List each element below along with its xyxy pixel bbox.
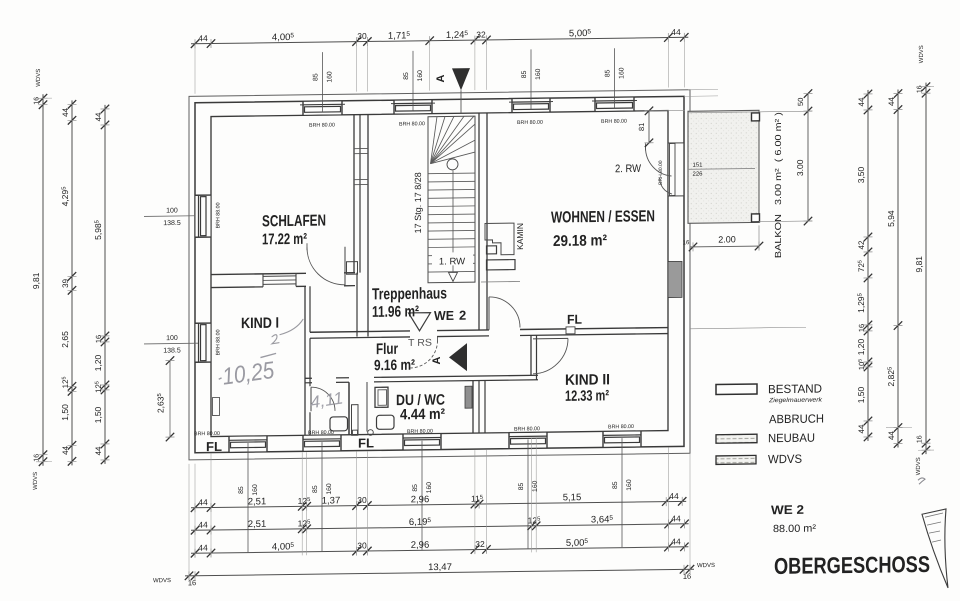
svg-text:85: 85: [312, 485, 319, 493]
svg-text:2,96: 2,96: [411, 494, 429, 505]
svg-text:1. RW: 1. RW: [439, 256, 465, 267]
svg-text:160: 160: [532, 480, 539, 492]
svg-text:FL: FL: [567, 312, 582, 327]
window left W10 (Schlafen): [195, 195, 211, 237]
svg-text:138.5: 138.5: [163, 220, 181, 227]
svg-text:39: 39: [61, 278, 70, 288]
svg-text:BRH 80.00: BRH 80.00: [399, 121, 425, 127]
svg-text:85: 85: [412, 484, 419, 492]
wall: Treppenhaus / Wohnen-Essen: [479, 113, 487, 330]
entry symbol WE 2 triangle: [409, 313, 431, 331]
svg-text:44: 44: [61, 107, 70, 117]
svg-text:WDVS: WDVS: [919, 45, 925, 63]
svg-text:16: 16: [94, 335, 103, 343]
svg-text:85: 85: [238, 486, 245, 494]
svg-text:16: 16: [857, 324, 866, 332]
svg-text:160: 160: [619, 67, 626, 79]
left dim 2.63: [156, 356, 175, 441]
svg-text:160: 160: [252, 484, 259, 496]
left dimension chain C: [93, 105, 109, 465]
short line below Kamin area: [481, 280, 520, 283]
svg-text:A: A: [431, 356, 443, 364]
right dimension chain D3: [886, 89, 902, 448]
svg-text:16: 16: [683, 240, 690, 246]
window bottom W8 (Kind II): [509, 432, 547, 448]
svg-text:44: 44: [671, 513, 681, 523]
svg-text:85: 85: [403, 72, 410, 80]
door DU/WC leaf + hinge: [352, 382, 374, 436]
svg-text:SCHLAFEN: SCHLAFEN: [262, 213, 326, 231]
svg-text:BRH 80.00: BRH 80.00: [514, 426, 540, 432]
svg-text:226: 226: [693, 172, 704, 178]
svg-text:100: 100: [166, 207, 178, 214]
svg-text:BRH 80.00: BRH 80.00: [194, 431, 220, 437]
bottom window extension lines + 85/160 labels: [238, 438, 633, 552]
svg-text:44: 44: [94, 112, 103, 122]
svg-text:30: 30: [357, 495, 367, 505]
Kamin chimney block: [485, 223, 515, 270]
svg-text:44: 44: [887, 431, 896, 441]
svg-text:30: 30: [357, 540, 367, 550]
balcony slab with posts: [688, 110, 760, 223]
svg-text:30: 30: [357, 31, 367, 41]
svg-text:2,51: 2,51: [248, 519, 266, 530]
bottom dimension chain 1: [191, 491, 687, 512]
right extension stubs: [684, 87, 934, 454]
svg-text:BRH 80.00: BRH 80.00: [407, 429, 433, 435]
svg-text:BALKON 3.00 m² ( 6.00 m² ): BALKON 3.00 m² ( 6.00 m² ): [773, 112, 783, 258]
svg-text:1,37: 1,37: [322, 495, 340, 506]
window bottom W5 (Kind I): [229, 436, 267, 452]
svg-text:FL: FL: [358, 435, 374, 450]
wall: DU/WC left + right, Kind II left lower: [349, 380, 485, 434]
room label SCHLAFEN: [262, 213, 326, 249]
svg-text:3.00: 3.00: [795, 159, 805, 176]
room label Treppenhaus: [372, 285, 466, 324]
door Wohnen/Essen: [489, 296, 520, 329]
window top W2 (Treppenhaus): [391, 100, 435, 115]
svg-text:Ziegelmauerwerk: Ziegelmauerwerk: [768, 397, 823, 405]
svg-text:BRH 80.00: BRH 80.00: [309, 122, 335, 128]
svg-text:138.5: 138.5: [163, 347, 181, 354]
svg-text:44: 44: [61, 445, 70, 455]
svg-text:44: 44: [198, 543, 208, 553]
left dimension chain B: [60, 100, 76, 466]
svg-text:160: 160: [417, 70, 424, 82]
balcony vertical dimension 50 / 3.00: [688, 89, 813, 227]
svg-text:NEUBAU: NEUBAU: [768, 431, 815, 446]
svg-text:100: 100: [166, 335, 178, 342]
svg-text:WDVS: WDVS: [33, 472, 39, 490]
svg-text:16: 16: [34, 97, 41, 105]
svg-text:11.96 m²: 11.96 m²: [372, 303, 419, 321]
svg-text:44: 44: [857, 97, 866, 107]
svg-text:BESTAND: BESTAND: [768, 382, 822, 397]
door T RS: [411, 337, 438, 368]
section mark A top: [435, 68, 470, 113]
svg-text:WDVS: WDVS: [697, 563, 715, 569]
top dimension chain: [191, 27, 689, 94]
svg-text:85: 85: [521, 70, 528, 78]
building exterior walls: [189, 90, 690, 460]
svg-text:160: 160: [327, 71, 334, 83]
svg-text:FL: FL: [206, 439, 222, 454]
svg-text:85: 85: [518, 482, 525, 490]
svg-text:88.00 m²: 88.00 m²: [773, 523, 817, 536]
svg-text:44: 44: [887, 97, 896, 107]
top window extension lines + 85/160 labels: [313, 48, 626, 112]
WC in pocket: [330, 417, 348, 431]
svg-text:2,51: 2,51: [248, 496, 266, 507]
bottom dimension chain 2: [191, 513, 689, 535]
neubau hatched wall segment near DU/WC: [465, 386, 472, 408]
svg-text:42: 42: [857, 240, 866, 250]
window bottom W9 (Kind II): [603, 431, 641, 447]
door Flur to Kind I pocket: [311, 387, 335, 411]
svg-text:WDVS: WDVS: [153, 578, 171, 584]
legend BESTAND: [716, 382, 823, 405]
svg-text:9,81: 9,81: [914, 256, 924, 273]
svg-text:3,50: 3,50: [856, 166, 866, 183]
svg-text:A: A: [435, 74, 447, 82]
section mark A in Flur: [431, 343, 467, 371]
door Schlafen: [307, 243, 358, 287]
left extension stubs: [36, 98, 52, 462]
svg-text:16: 16: [917, 435, 924, 443]
svg-text:1,50: 1,50: [60, 404, 70, 421]
corridor bottom wall: Flur / DU-WC: [305, 375, 538, 383]
svg-text:160: 160: [326, 483, 333, 495]
svg-text:1,20: 1,20: [856, 338, 866, 355]
svg-text:BRH 80.00: BRH 80.00: [608, 424, 634, 430]
window bottom W6 (Kind I): [303, 435, 341, 451]
svg-text:12.33 m²: 12.33 m²: [565, 387, 609, 405]
room label DU/WC: [396, 391, 445, 423]
svg-text:160: 160: [626, 479, 633, 491]
window left W11 (Kind I): [195, 323, 211, 362]
svg-text:Treppenhaus: Treppenhaus: [372, 285, 447, 303]
svg-text:44: 44: [198, 520, 208, 530]
svg-text:1,20: 1,20: [93, 354, 103, 371]
svg-text:32: 32: [476, 29, 486, 39]
svg-text:BRH 88.00: BRH 88.00: [216, 329, 222, 355]
svg-text:44: 44: [198, 33, 208, 43]
svg-text:1,50: 1,50: [856, 386, 866, 403]
svg-text:WDVS: WDVS: [36, 69, 42, 87]
legend WDVS: [716, 452, 802, 467]
svg-text:BRH 80.00: BRH 80.00: [308, 430, 334, 436]
svg-text:44: 44: [671, 27, 681, 37]
svg-text:29.18 m²: 29.18 m²: [553, 232, 607, 250]
right dimension chain D2: [856, 90, 872, 442]
svg-text:16: 16: [34, 454, 41, 462]
wall: Kind I right (vertical): [305, 286, 310, 435]
radiator Kind I left wall: [213, 397, 220, 415]
bottom dimension chain 4 overall: [153, 558, 715, 587]
handwritten 2 with arrow: [272, 319, 303, 343]
svg-text:85: 85: [605, 69, 612, 77]
svg-text:BRH 88.00: BRH 88.00: [216, 202, 222, 228]
door Kind II: [533, 338, 568, 373]
svg-text:ABBRUCH: ABBRUCH: [769, 412, 824, 427]
svg-text:13,47: 13,47: [428, 562, 452, 573]
svg-text:16: 16: [917, 85, 924, 93]
svg-text:17 Stg. 17 8/28: 17 Stg. 17 8/28: [413, 172, 423, 233]
svg-text:2: 2: [459, 308, 466, 323]
room label KIND II: [565, 371, 610, 405]
svg-text:Flur: Flur: [376, 341, 398, 358]
svg-text:44: 44: [198, 497, 208, 507]
svg-text:WOHNEN / ESSEN: WOHNEN / ESSEN: [551, 208, 655, 226]
svg-text:85: 85: [313, 73, 320, 81]
FL labels: [206, 312, 582, 454]
svg-text:WE: WE: [434, 308, 454, 323]
stairs: [428, 116, 475, 283]
svg-text:44: 44: [671, 536, 681, 546]
legend NEUBAU: [716, 431, 815, 446]
svg-text:81: 81: [637, 123, 646, 131]
bottom extension lines: [189, 435, 690, 580]
room label KIND I: [241, 315, 279, 332]
svg-text:32: 32: [475, 539, 485, 549]
svg-text:BRH 80.00: BRH 80.00: [601, 119, 627, 125]
svg-text:17.22 m²: 17.22 m²: [262, 231, 307, 249]
svg-text:WDVS: WDVS: [768, 452, 802, 466]
window bottom W7 (DU/WC): [403, 434, 441, 450]
svg-text:160: 160: [426, 482, 433, 494]
room label WOHNEN / ESSEN: [551, 208, 655, 250]
BRH labels: [194, 118, 664, 438]
balcony door in right wall: [645, 143, 684, 197]
handwritten 10,25: [217, 353, 280, 391]
svg-text:160: 160: [535, 68, 542, 80]
svg-text:2,96: 2,96: [411, 540, 429, 551]
north arrow wedge: [922, 509, 948, 588]
svg-text:1,50: 1,50: [93, 406, 103, 423]
svg-text:2.00: 2.00: [718, 234, 736, 244]
svg-text:KIND I: KIND I: [241, 315, 279, 332]
svg-text:OBERGESCHOSS: OBERGESCHOSS: [774, 551, 930, 579]
small pencil mark above wedge: [918, 478, 925, 484]
bottom dimension chain 3: [191, 536, 689, 558]
svg-text:9,81: 9,81: [31, 272, 41, 289]
svg-text:44: 44: [94, 446, 103, 456]
left window dims 100/138.5: [144, 207, 198, 355]
room label Flur: [374, 341, 415, 375]
svg-text:2,65: 2,65: [60, 331, 70, 348]
title WE 2: [771, 503, 817, 536]
wall: corridor nook vertical (Kind II left upper): [531, 335, 537, 380]
svg-text:151: 151: [693, 163, 704, 169]
window top W3 (Wohnen): [509, 98, 553, 113]
svg-text:5,94: 5,94: [886, 210, 896, 227]
left dimension chain A (overall 16/9.81/16): [31, 69, 47, 490]
svg-text:WDVS: WDVS: [916, 457, 922, 475]
window top W1 (Schlafen): [300, 101, 345, 116]
dimension 2.00 below balcony: [683, 225, 764, 251]
interior wall: Schlafen / Kind I (with interior window + door opening): [211, 273, 355, 288]
right dimension chain D4 (overall): [914, 45, 930, 475]
handwritten 4,11: [309, 388, 344, 412]
main horizontal wall: Treppenhaus+Wohnen / Flur+Kind II: [310, 328, 668, 339]
washbasin DU/WC: [377, 415, 395, 429]
svg-text:KIND II: KIND II: [565, 371, 610, 389]
neubau hatched wall segment right wall below balcony: [668, 261, 682, 297]
svg-text:44: 44: [857, 424, 866, 434]
svg-text:85: 85: [612, 481, 619, 489]
window top W4 (Wohnen): [592, 97, 637, 112]
shower DU/WC: [375, 387, 388, 407]
dimension 81 at balcony door: [637, 106, 685, 147]
svg-text:9.16 m²: 9.16 m²: [374, 357, 415, 375]
svg-text:BRH 80.00: BRH 80.00: [517, 120, 543, 126]
svg-text:WE 2: WE 2: [771, 503, 804, 517]
svg-text:50: 50: [796, 98, 805, 106]
wall: Schlafen / Treppenhaus (double wall with shaft): [354, 114, 368, 336]
svg-text:KAMIN: KAMIN: [515, 223, 525, 250]
svg-text:2. RW: 2. RW: [615, 163, 642, 175]
svg-text:4.44 m²: 4.44 m²: [400, 406, 445, 424]
svg-text:T RS: T RS: [408, 338, 432, 349]
svg-text:44: 44: [669, 491, 679, 501]
svg-text:5,15: 5,15: [563, 492, 581, 503]
